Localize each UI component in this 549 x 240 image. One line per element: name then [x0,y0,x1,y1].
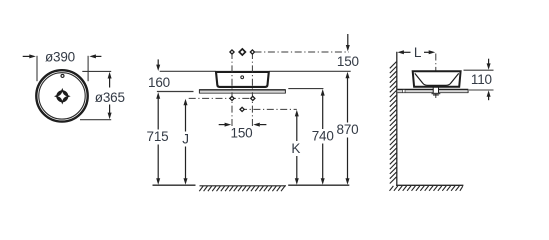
svg-text:110: 110 [471,72,492,87]
outer rim circle [36,70,87,121]
dimension ø390 extension line left [36,56,38,81]
dimension ø390 extension line right [87,56,89,81]
dim 110 extension line bottom [469,89,494,91]
svg-text:L: L [414,45,422,60]
dimension ø365 extension line top [82,70,111,72]
counter reference line left [157,91,194,93]
trap level centreline (dash-dot, to K) [240,108,297,110]
floor line right segment [288,184,349,186]
svg-text:ø390: ø390 [45,50,75,65]
dimension ø365 top arrow [108,72,112,88]
floor line left segment [153,184,196,186]
svg-text:160: 160 [148,75,170,90]
slab break marks (side) [403,89,405,92]
floor hatch middle [199,186,286,191]
dim 150 top arrow (down) [346,34,350,51]
counter reference line right [288,88,323,90]
basin centreline (side, dash-dot) [435,54,437,99]
overflow hole [61,74,64,77]
dimension ø390 right arrow [89,54,101,58]
svg-text:ø365: ø365 [95,90,125,105]
dimension ø365 bottom arrow [108,105,112,120]
wall line [396,52,398,186]
svg-text:740: 740 [312,128,334,143]
countertop slab (front) [199,90,285,93]
dim 150 middle arrows [219,123,267,127]
faucet hole (front) [241,76,244,79]
svg-text:870: 870 [337,122,359,137]
dim 740 line with arrows [321,89,325,185]
svg-text:J: J [182,131,189,146]
basin top reference line right segment [270,70,351,72]
svg-text:K: K [291,141,300,156]
drain symbol [54,88,71,105]
centreline vertical right [251,52,253,127]
dim 110 top arrow (down) [487,59,491,70]
basin profile (side) [413,71,461,87]
dim L line with outward arrows [397,50,435,54]
inner rim circle [39,73,85,119]
dim 715 line with arrows [156,92,160,185]
dim J line with arrows [184,99,188,185]
svg-text:150: 150 [337,54,359,69]
drain fitting (side) [432,87,441,95]
dimension ø390 left arrow [23,54,36,58]
countertop slab (side) [397,89,468,92]
diamonds drain level [230,96,255,111]
dim K line with arrows [295,110,299,185]
floor line right view [396,184,463,186]
basin top reference line left segment [160,70,216,72]
dim 110 bottom arrow (up) [487,90,491,100]
drain level centreline (dash-dot, to J) [189,97,255,99]
dim 870 line with arrows [346,72,350,185]
centreline top horizontal (dash-dot) [255,51,349,53]
dim 110 extension line top [464,69,494,71]
dimension ø365 extension line bottom [80,119,111,121]
dim 160 top arrow (down) [156,59,160,71]
wall hatch [390,62,397,184]
svg-text:715: 715 [147,129,169,144]
centreline vertical left [231,52,233,127]
svg-text:150: 150 [231,126,253,141]
basin body (front) [216,72,269,87]
fixing point diamonds top row [230,49,255,55]
floor hatch right view [390,186,463,191]
